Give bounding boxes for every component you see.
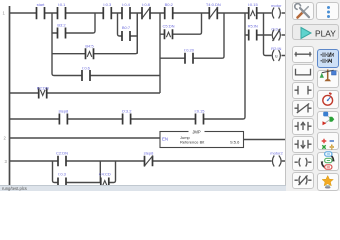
svg-text:3: 3 (5, 159, 8, 164)
svg-text:B4:5: B4:5 (85, 44, 94, 49)
svg-text:O:0.1: O:0.1 (271, 27, 282, 32)
svg-text:C4:CD: C4:CD (99, 172, 111, 177)
svg-text:C5:DN: C5:DN (162, 24, 174, 29)
svg-text:I:0.4: I:0.4 (122, 2, 131, 7)
svg-text:I:0.20: I:0.20 (184, 48, 195, 53)
svg-text:I:0.15: I:0.15 (194, 109, 205, 114)
svg-text:2: 2 (4, 136, 7, 141)
svg-text:R5:IN: R5:IN (248, 24, 258, 29)
svg-text:B3:2: B3:2 (57, 23, 66, 28)
svg-text:motor: motor (271, 3, 282, 8)
svg-text:1: 1 (3, 11, 6, 16)
svg-text:motor2: motor2 (270, 151, 283, 156)
svg-text:I:0.15: I:0.15 (248, 2, 259, 7)
svg-text:I:0.6: I:0.6 (82, 65, 91, 70)
svg-text:I:0.1: I:0.1 (58, 2, 67, 7)
svg-text:B0:2: B0:2 (165, 2, 174, 7)
svg-text:I:0.3: I:0.3 (103, 2, 112, 7)
svg-text:start: start (37, 2, 46, 7)
svg-text:I:0.3: I:0.3 (58, 172, 67, 177)
svg-text:O:3.2: O:3.2 (122, 109, 133, 114)
svg-text:EN: EN (162, 136, 168, 141)
svg-text:step8: step8 (144, 151, 155, 156)
svg-text:R2:DN: R2:DN (37, 85, 49, 90)
svg-text:C2:DN: C2:DN (56, 151, 68, 156)
svg-text:I:0.8: I:0.8 (142, 2, 151, 7)
svg-text:Reference Bit: Reference Bit (180, 140, 205, 145)
svg-text:S:5.6: S:5.6 (230, 140, 240, 145)
svg-text:JMP: JMP (192, 130, 201, 135)
svg-text:step8: step8 (59, 109, 70, 114)
svg-text:B0:7: B0:7 (122, 25, 131, 30)
svg-text:u: u (275, 53, 278, 58)
svg-text:PLAY: PLAY (315, 28, 336, 38)
svg-text:R2:IN: R2:IN (271, 46, 281, 51)
svg-text:T4:0.DN: T4:0.DN (206, 2, 221, 7)
